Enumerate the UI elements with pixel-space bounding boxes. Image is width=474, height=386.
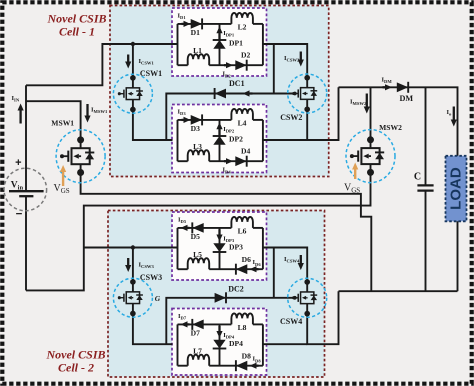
diode DP4 (vertical) [213,340,225,349]
svg-text:CSW1: CSW1 [140,69,162,78]
diode D5 [192,223,203,233]
transistor MSW2 [346,130,395,183]
wires of sub-cell box2 [177,120,179,161]
inductor L7 [188,355,210,366]
svg-text:DP1: DP1 [229,39,243,48]
current arrow ID5 [188,227,190,229]
inductor L2 [231,13,253,24]
wires of sub-cell box3 [177,228,179,269]
current arrow IDP1 [218,33,220,39]
VGS arrow MSW2 (orange) [354,170,356,180]
svg-text:L1: L1 [193,46,202,55]
svg-text:MSW1: MSW1 [51,119,74,128]
wire: DC1 branch [166,94,294,141]
wire: CSW1 bottom to box2 [133,109,173,140]
current arrow IDC1 [250,92,253,94]
diode DC2 [215,293,226,303]
diode D8 [236,361,247,371]
current arrow IDP3 [218,229,220,234]
svg-text:DC1: DC1 [229,79,245,88]
svg-text:L3: L3 [193,142,202,151]
current arrow IIN [19,111,21,124]
current arrow ID3 [182,119,184,121]
transistor CSW2 [288,74,327,113]
current arrow ICSW1 [127,55,129,62]
diode DC1 [215,89,226,99]
wires of sub-cell box4 [177,324,179,365]
wire: cell 2 feed rail [84,247,178,249]
cell 2 dashed box (Novel CSIB Cell-2) [108,211,325,378]
inductor L1 [188,54,210,65]
wire: capacitor branch bottom [425,191,427,292]
diode D4 [235,156,246,166]
svg-text:D1: D1 [191,28,200,37]
wire: load bottom [457,220,459,291]
svg-text:C: C [414,172,421,183]
svg-text:CSW4: CSW4 [280,317,302,326]
svg-text:DM: DM [399,94,413,103]
purple sub-cell box 2 [172,105,267,173]
svg-text:L7: L7 [193,347,202,356]
wire: box4 output to CSW4 path [263,343,307,345]
purple sub-cell box 3 [172,212,267,280]
wire: DC2 branch [166,298,294,344]
current arrow ID4 [224,160,226,162]
svg-text:Cell - 1: Cell - 1 [59,25,95,39]
current arrow Io [453,107,455,120]
current arrow ICSW3 [127,258,129,265]
battery plates [9,190,44,192]
inductor L5 [188,258,210,269]
svg-text:DP3: DP3 [229,243,243,252]
svg-text:Novel CSIB: Novel CSIB [45,348,105,362]
svg-text:−: − [16,209,23,221]
load block [446,156,467,222]
current arrow ICSW2 [300,52,302,60]
transistor MSW1 [56,130,105,183]
diode D3 [191,115,202,125]
current arrow IMSW2 [366,94,368,107]
current arrow ID2 [224,64,226,66]
diode DP1 (vertical) [213,40,225,49]
svg-text:+: + [15,157,21,169]
wire: MSW2 drain [370,87,372,140]
svg-text:DP4: DP4 [229,339,243,348]
current arrow ID7 [188,323,190,325]
svg-text:D5: D5 [191,232,200,241]
capacitor C [417,184,433,186]
VGS arrow MSW1 (orange) [62,172,64,186]
current arrow IDP4 [218,326,220,331]
transistor CSW1 [113,74,152,113]
wire: capacitor branch top [425,87,427,185]
svg-text:CSW2: CSW2 [280,113,302,122]
wire: box1 output rail to CSW2 [263,44,307,79]
cell 1 dashed box (Novel CSIB Cell-1) [110,6,329,177]
purple sub-cell box 4 [172,309,267,376]
diode D2 [235,60,246,70]
wires of sub-cell box1 [177,24,179,65]
svg-text:D3: D3 [191,124,200,133]
wire: Vin- down [25,196,27,290]
svg-text:D2: D2 [241,50,250,59]
wire: CSW4 bottom down-right-up to bottom rail [307,291,338,344]
wire: MSW1 source to bottom-right rail [81,172,372,291]
wire: CSW3 branch from rail [132,248,134,283]
svg-text:DP2: DP2 [229,135,243,144]
current arrow ID6 [257,268,259,270]
current arrow ID1 [182,23,184,25]
current arrow ID8 [257,365,259,367]
wire: DC1 tee up to rail [273,44,275,94]
wire: MSW2 source to left node (line2) [26,172,371,290]
wire: box3 output rail to CSW4 [263,248,307,282]
transistor CSW4 [288,278,327,317]
svg-text:D6: D6 [242,255,251,264]
svg-text:D4: D4 [241,146,250,155]
svg-text:L6: L6 [238,227,247,236]
svg-text:LOAD: LOAD [448,167,465,210]
inductor L4 [231,109,253,120]
svg-text:L5: L5 [193,250,202,259]
current arrow ICSW4 [300,255,302,263]
purple sub-cell box 1 [172,8,267,76]
diode D1 [191,19,202,29]
current arrow IMSW1 [86,104,88,116]
voltage source Vin (dashed circle) [4,168,47,211]
svg-text:L8: L8 [238,323,247,332]
diode D7 [192,320,203,330]
current arrow IDP2 [218,129,220,135]
diode DP3 (vertical) [213,243,225,252]
transistor CSW3 [113,278,152,317]
diode DP2 (vertical) [213,136,225,145]
svg-text:CSW3: CSW3 [140,273,162,282]
wire: tap to MSW1 drain [26,101,81,140]
wire: CSW2 bottom down-right-up to DM rail [307,87,338,140]
inductor L8 [231,313,253,324]
wire: box2 output to CSW2 path [263,139,307,141]
wire: bottom output rail [339,290,458,292]
inductor L6 [231,217,253,228]
svg-text:Cell - 2: Cell - 2 [58,361,94,375]
svg-text:G: G [155,294,161,303]
svg-text:D7: D7 [191,328,200,337]
wire: DM output rail [339,87,458,157]
current arrow IDM [383,86,386,88]
junction node on cell2 rail [131,245,135,249]
wire: CSW1 branch from rail [132,44,134,78]
diode D6 [236,264,247,274]
wire: DC2 tee up to rail [273,248,275,298]
inductor L3 [188,150,210,161]
svg-text:L2: L2 [238,23,247,32]
svg-text:Novel CSIB: Novel CSIB [46,11,106,25]
junction node on cell1 rail [131,42,135,46]
svg-text:DC2: DC2 [228,285,244,294]
diode DM [397,82,408,92]
svg-text:MSW2: MSW2 [379,123,402,132]
wire: Vin+ up and to cell 1 [25,85,27,191]
svg-text:D8: D8 [242,352,251,361]
svg-text:L4: L4 [238,119,247,128]
wire: CSW3 bottom to box4 [133,313,173,344]
